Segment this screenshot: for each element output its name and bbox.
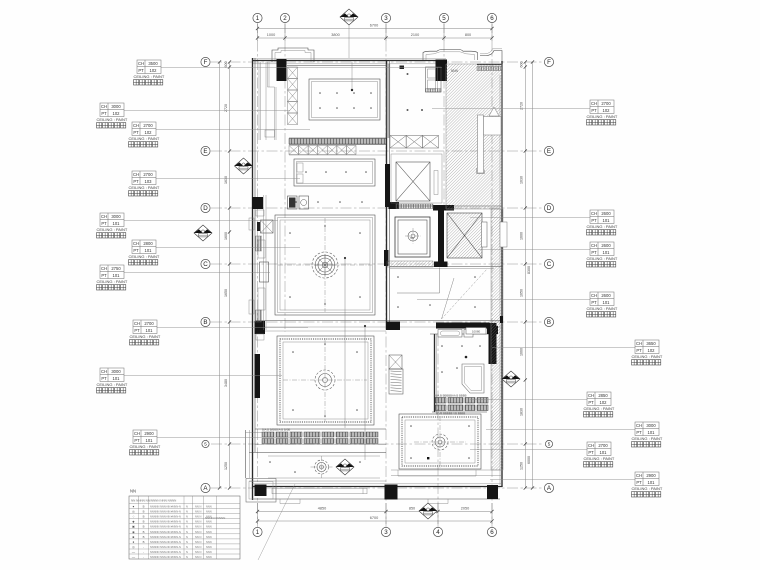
partition wall y452 corridor [249, 452, 386, 454]
grid bubble C right [544, 259, 553, 268]
xbox row below kitchen [289, 146, 356, 155]
svg-text:CH: CH [636, 423, 642, 428]
svg-text:101: 101 [113, 221, 121, 226]
svg-text:CEILING : PAINT: CEILING : PAINT [97, 279, 128, 284]
svg-text:1000: 1000 [267, 33, 275, 37]
strip white slot [500, 222, 507, 247]
svg-text:6700: 6700 [370, 24, 378, 28]
svg-text:3480: 3480 [224, 379, 228, 387]
svg-text:2700: 2700 [144, 321, 154, 326]
grid line B [211, 321, 544, 323]
svg-text:600: 600 [224, 62, 228, 68]
left wall hatched bits [256, 236, 262, 251]
fancoil xbox right [389, 355, 402, 369]
svg-text:C: C [203, 261, 208, 268]
grid bubble 3 top [381, 13, 390, 22]
svg-text:2700: 2700 [601, 101, 611, 106]
hatch curb bath1 [387, 261, 433, 267]
partition wall y475 band [391, 475, 502, 477]
svg-text:D: D [547, 205, 552, 212]
svg-text:N: N [186, 535, 188, 539]
svg-text:-: - [143, 555, 144, 559]
svg-text:NNNNN NNN-NN #NNN-N: NNNNN NNN-NN #NNN-N [150, 535, 181, 539]
svg-text:CEILING : PAINT: CEILING : PAINT [129, 185, 160, 190]
elevation marker corridor [336, 459, 354, 475]
svg-text:NN N: NN N [195, 525, 201, 529]
svg-text:PT: PT [101, 111, 107, 116]
ceiling tag right 7 CH3000 [486, 422, 663, 447]
svg-text:CEILING : PAINT: CEILING : PAINT [632, 486, 663, 491]
door hinge blob top [400, 66, 405, 70]
svg-text:2700: 2700 [143, 123, 153, 128]
ceiling tag right 8 CH2700 [470, 442, 615, 467]
ceiling step lines room K [397, 268, 440, 294]
room G xbox row [390, 136, 439, 149]
partition wall x386 hatch [385, 64, 390, 138]
svg-text:800: 800 [465, 33, 471, 37]
column wall left bedroom [255, 354, 261, 398]
svg-text:NNNNN NNN-NN #NNN-N: NNNNN NNN-NN #NNN-N [150, 505, 181, 509]
svg-text:2050: 2050 [461, 507, 469, 511]
ceiling tag left 10 CH2900 [130, 430, 301, 455]
room bedroom2 downlights [410, 425, 470, 459]
svg-text:NN N: NN N [195, 510, 201, 514]
svg-text:1830: 1830 [520, 408, 524, 416]
svg-text:NNNNN NNN-NN #NNN-N: NNNNN NNN-NN #NNN-N [150, 530, 181, 534]
room living outline [275, 215, 375, 315]
svg-text:101: 101 [146, 438, 154, 443]
room mid-right downlights [397, 276, 476, 308]
svg-text:CEILING : PAINT: CEILING : PAINT [129, 254, 160, 259]
svg-text:101: 101 [603, 218, 611, 223]
svg-text:CH: CH [636, 341, 642, 346]
svg-text:NNNNN NNN-NN #NNN-N: NNNNN NNN-NN #NNN-N [150, 555, 181, 559]
ceiling tag left 3 CH2700 [129, 122, 311, 147]
entry wall bottom-left [245, 430, 247, 478]
svg-text:101: 101 [603, 250, 611, 255]
svg-text:2750: 2750 [111, 266, 121, 271]
svg-text:PT: PT [133, 179, 139, 184]
elevation marker top [340, 9, 358, 25]
grid line 5a [211, 443, 544, 445]
svg-text:NNN: NNN [451, 69, 459, 73]
cabinet xboxes vertical strip [288, 67, 298, 79]
svg-text:NNNNN NNN-NN #NNN-N: NNNNN NNN-NN #NNN-N [150, 510, 181, 514]
elevation marker left-D [194, 225, 212, 241]
bedroom2 black mark [427, 457, 429, 459]
svg-text:CH: CH [101, 214, 107, 219]
bay window moulding top-mid [423, 49, 478, 60]
svg-text:102: 102 [600, 400, 608, 405]
room kitchen outline [309, 79, 380, 120]
svg-text:850: 850 [409, 507, 415, 511]
grid bubble E right [544, 146, 553, 155]
svg-text:1600: 1600 [520, 232, 524, 240]
svg-text:B: B [143, 510, 145, 514]
column grid1-D [252, 197, 263, 209]
svg-text:2800: 2800 [143, 241, 153, 246]
room bedroom1 medallion [283, 338, 367, 422]
partition wall y333 right [430, 333, 489, 335]
svg-text:PT: PT [591, 218, 597, 223]
svg-text:2: 2 [283, 15, 287, 22]
hatch band below kitchen [289, 139, 386, 145]
svg-text:CH: CH [636, 473, 642, 478]
room bath1 outline [395, 217, 430, 257]
column grid2-F [277, 59, 287, 81]
svg-text:CH: CH [133, 123, 139, 128]
svg-text:PT: PT [636, 430, 642, 435]
svg-text:NN N: NN N [195, 520, 201, 524]
vanity hatched band [435, 398, 446, 404]
ceiling tag left 1 CH3500 [134, 60, 443, 85]
svg-text:3000: 3000 [111, 369, 121, 374]
svg-text:NN N: NN N [195, 540, 201, 544]
exterior wall right [501, 61, 503, 487]
svg-text:NN NNNN NN/NNNN: NN NNNN NN/NNNN NNN NNNN [131, 499, 176, 503]
svg-text:4850: 4850 [318, 507, 326, 511]
svg-text:CEILING : PAINT: CEILING : PAINT [97, 227, 128, 232]
void hatched area right [446, 64, 502, 209]
svg-text:PT: PT [101, 273, 107, 278]
svg-text:NNN: NNN [206, 510, 212, 514]
svg-text:▣: ▣ [132, 525, 135, 529]
bath2 shower corner [462, 364, 484, 393]
svg-text:●: ● [133, 505, 135, 509]
svg-text:5: 5 [548, 442, 551, 447]
grid bubble 6 bottom [487, 527, 496, 536]
room bedroom2 medallion [414, 416, 466, 468]
svg-text:1650: 1650 [224, 289, 228, 297]
svg-text:PT: PT [133, 248, 139, 253]
svg-text:CH: CH [133, 172, 139, 177]
svg-text:2600: 2600 [601, 293, 611, 298]
svg-text:N: N [186, 530, 188, 534]
svg-text:NNNNN NNN-NN #NNN-N: NNNNN NNN-NN #NNN-N [150, 545, 181, 549]
bath2 counter boxes [438, 330, 462, 338]
svg-text:CEILING : PAINT: CEILING : PAINT [632, 354, 663, 359]
room top-right downlights [407, 73, 424, 111]
svg-text:CH: CH [101, 104, 107, 109]
svg-text:103: 103 [145, 179, 153, 184]
svg-text:NN N: NN N [195, 535, 201, 539]
column bath2 band [436, 323, 490, 329]
ceiling tag left 5 CH3000 [97, 213, 279, 238]
elevation marker bottom [419, 503, 437, 519]
svg-text:2850: 2850 [598, 393, 608, 398]
svg-text:PT: PT [588, 450, 594, 455]
top dimension 6700 [258, 28, 493, 30]
grid bubble A left [201, 483, 210, 492]
svg-text:3500: 3500 [148, 61, 158, 66]
svg-text:N: N [186, 520, 188, 524]
svg-text:NNN: NNN [206, 540, 212, 544]
grid bubble E left [201, 146, 210, 155]
svg-text:3000: 3000 [111, 214, 121, 219]
top dimension segments [258, 37, 493, 39]
svg-text:CEILING : PAINT: CEILING : PAINT [632, 436, 663, 441]
right inner dim chain [524, 62, 526, 488]
svg-text:3650: 3650 [646, 341, 656, 346]
grid bubble D right [544, 203, 553, 212]
svg-text:B: B [143, 505, 145, 509]
fan coil box left [261, 220, 274, 233]
column grid3-D [389, 202, 400, 209]
svg-text:10080: 10080 [472, 330, 481, 334]
grid line C [211, 263, 544, 265]
svg-text:2600: 2600 [601, 211, 611, 216]
parapet band top-right [477, 63, 502, 65]
elevation marker right [502, 371, 520, 387]
svg-text:B/A B B/BBB/A B B/BB: B/A B B/BBB/A B B/BB [262, 428, 290, 432]
partition wall y430 bedroom bottom [255, 428, 386, 430]
grid bubble A right [544, 483, 553, 492]
elevation marker stem top [348, 25, 350, 58]
svg-text:CH: CH [133, 241, 139, 246]
appliance boxes [288, 196, 298, 209]
wardrobe hatched band [262, 432, 274, 437]
ceiling tag left 9 CH3000 [97, 368, 283, 393]
exterior wall left [252, 58, 254, 500]
svg-text:NNNNN NNN-NN #NNN-N: NNNNN NNN-NN #NNN-N [150, 550, 181, 554]
svg-text:5: 5 [204, 442, 207, 447]
svg-text:CEILING : PAINT: CEILING : PAINT [587, 114, 618, 119]
grid bubble 6 top [487, 13, 496, 22]
grid line E [211, 150, 544, 152]
svg-text:N: N [186, 510, 188, 514]
partition wall y155 [289, 154, 386, 156]
grid line F [211, 61, 544, 63]
partition wall y208 right zone [390, 205, 502, 207]
svg-text:102: 102 [113, 111, 121, 116]
svg-text:B: B [143, 525, 145, 529]
svg-text:N: N [186, 540, 188, 544]
kitchen top wall face [287, 65, 386, 67]
svg-text:101: 101 [146, 328, 154, 333]
fancoil hatch right [389, 369, 403, 394]
svg-text:PT: PT [138, 68, 144, 73]
svg-text:N: N [186, 505, 188, 509]
left wall casing top [258, 62, 260, 140]
partition wall x433 [434, 334, 436, 412]
room dining downlights [305, 171, 367, 173]
svg-text:B VB BBBBB VB BBBB: B VB BBBBB VB BBBB [436, 412, 465, 416]
svg-text:101: 101 [603, 300, 611, 305]
svg-text:B: B [143, 515, 145, 519]
column elevator left [438, 209, 444, 262]
left outer dim chain [219, 62, 221, 488]
room living downlights [289, 201, 363, 305]
svg-text:1630: 1630 [520, 176, 524, 184]
svg-text:6000: 6000 [527, 456, 531, 464]
svg-text:CH: CH [138, 61, 144, 66]
grid bubble 1 top [253, 13, 262, 22]
grid bubble 1 bottom [253, 527, 262, 536]
svg-text:101: 101 [145, 248, 153, 253]
room bedroom1 outline [277, 336, 374, 425]
svg-text:CEILING : PAINT: CEILING : PAINT [97, 117, 128, 122]
svg-text:2900: 2900 [144, 431, 154, 436]
svg-text:PT: PT [134, 328, 140, 333]
partition wall y470 right room [391, 469, 502, 471]
svg-text:3: 3 [384, 15, 388, 22]
svg-text:CH: CH [591, 211, 597, 216]
svg-text:B: B [143, 520, 145, 524]
svg-text:6700: 6700 [370, 516, 378, 520]
svg-text:1660: 1660 [520, 348, 524, 356]
svg-text:102: 102 [150, 68, 158, 73]
void white slot [478, 115, 484, 173]
ceiling tag right 5 CH3650 [492, 340, 663, 365]
left wall casing [263, 195, 265, 330]
svg-text:6: 6 [490, 529, 494, 536]
svg-text:-: - [143, 545, 144, 549]
svg-text:1600: 1600 [224, 232, 228, 240]
dining stove boxes [297, 163, 303, 172]
svg-text:2700: 2700 [143, 172, 153, 177]
svg-text:◎: ◎ [132, 510, 135, 514]
svg-text:PT: PT [588, 400, 594, 405]
svg-text:PT: PT [134, 438, 140, 443]
svg-text:1630: 1630 [224, 176, 228, 184]
svg-text:CEILING : PAINT: CEILING : PAINT [134, 74, 165, 79]
partition wall y320 [255, 320, 502, 322]
strip black bit [500, 316, 503, 323]
column grid3-B [386, 322, 400, 331]
bath2 dot [465, 356, 468, 359]
svg-text:◎: ◎ [132, 545, 135, 549]
svg-text:CEILING : PAINT: CEILING : PAINT [130, 444, 161, 449]
column grid3-A [385, 485, 398, 500]
svg-text:3000: 3000 [111, 104, 121, 109]
ceiling tag right 1 CH2700 [432, 100, 618, 125]
grid line D [211, 207, 544, 209]
svg-text:CH: CH [588, 443, 594, 448]
svg-text:NNN: NNN [206, 535, 212, 539]
svg-text:E: E [203, 148, 207, 155]
elevator2 shaft [447, 213, 482, 258]
room kitchen downlights [319, 92, 372, 109]
grid bubble 4 bottom [433, 527, 442, 536]
right outer dim chain [532, 62, 534, 488]
ceiling tag right 2 CH2600 [470, 210, 618, 235]
svg-text:101: 101 [648, 430, 656, 435]
svg-text:CH: CH [588, 393, 594, 398]
partition wall y331 bedroom top [255, 330, 386, 332]
svg-text:■: ■ [133, 535, 135, 539]
partition wall y412 right [432, 411, 487, 413]
bay window moulding top-left [272, 48, 314, 62]
svg-text:2900: 2900 [646, 473, 656, 478]
svg-text:CEILING : PAINT: CEILING : PAINT [587, 224, 618, 229]
ceiling tag left 8 CH2700 [130, 320, 309, 345]
svg-text:101: 101 [648, 480, 656, 485]
column c-wall mid [434, 262, 448, 268]
partition wall y481 corridor [249, 480, 386, 482]
svg-text:3000: 3000 [646, 423, 656, 428]
grid bubble 5a right [545, 440, 552, 447]
svg-text:102: 102 [145, 130, 153, 135]
svg-text:NNNN NNNNN: NNNN NNNNN [205, 516, 225, 520]
column grid1-A [255, 485, 267, 497]
svg-text:PT: PT [133, 130, 139, 135]
svg-text:D: D [203, 205, 208, 212]
grid line 2 [284, 22, 286, 332]
svg-text:NN N: NN N [195, 530, 201, 534]
grid line 1 [257, 22, 259, 527]
svg-text:CH: CH [101, 266, 107, 271]
svg-text:NN: NN [410, 236, 414, 240]
grid bubble B left [201, 317, 210, 326]
svg-text:1250: 1250 [520, 462, 524, 470]
svg-text:2100: 2100 [411, 33, 419, 37]
svg-text:CEILING : PAINT: CEILING : PAINT [97, 382, 128, 387]
svg-text:PT: PT [591, 250, 597, 255]
svg-text:B: B [143, 535, 145, 539]
corner moulding top-right [480, 51, 502, 62]
svg-text:PT: PT [591, 300, 597, 305]
room living medallion [278, 218, 372, 312]
svg-text:1: 1 [256, 15, 260, 22]
elevator1 shaft [391, 154, 442, 203]
room kitchen leader dot [351, 89, 353, 91]
bottom moulding band [272, 488, 367, 494]
svg-text:3: 3 [384, 529, 388, 536]
svg-text:CEILING : PAINT: CEILING : PAINT [587, 306, 618, 311]
svg-text:NN: NN [130, 489, 136, 494]
svg-text:CH: CH [134, 321, 140, 326]
svg-text:2720: 2720 [224, 104, 228, 112]
grid bubble C left [201, 259, 210, 268]
column right bath edge [489, 323, 497, 364]
svg-text:101: 101 [113, 273, 121, 278]
svg-text:PT: PT [591, 108, 597, 113]
svg-text:NNN: NNN [206, 530, 212, 534]
svg-text:NN N: NN N [195, 505, 201, 509]
svg-text:CEILING : PAINT: CEILING : PAINT [587, 256, 618, 261]
svg-text:600: 600 [520, 62, 524, 68]
ceiling tag left 4 CH2700 [129, 171, 301, 196]
svg-text:NNNNN NNN-NN #NNN-N: NNNNN NNN-NN #NNN-N [150, 520, 181, 524]
svg-text:F: F [204, 59, 208, 66]
door swing line [442, 278, 455, 319]
bottom dimension segments [258, 511, 493, 513]
svg-text:B: B [203, 319, 207, 326]
ceiling tag right 6 CH2850 [470, 392, 615, 417]
elevator1 sill band [396, 204, 433, 209]
svg-text:NNN: NNN [206, 505, 212, 509]
room bedroom1 downlights [292, 343, 358, 417]
svg-text:1650: 1650 [520, 289, 524, 297]
grid line 4 [437, 335, 439, 527]
svg-text:NN N: NN N [195, 550, 201, 554]
room dining outline [294, 159, 375, 186]
svg-text:N: N [186, 515, 188, 519]
svg-text:102: 102 [648, 348, 656, 353]
ceiling tag right 3 CH2600 [478, 242, 618, 267]
svg-text:5: 5 [442, 15, 446, 22]
svg-text:PT: PT [101, 376, 107, 381]
svg-text:6: 6 [490, 15, 494, 22]
svg-text:NNNNN NNN-NN #NNN-N: NNNNN NNN-NN #NNN-N [150, 540, 181, 544]
svg-text:-: - [143, 550, 144, 554]
svg-text:CH: CH [134, 431, 140, 436]
ceiling tag left 6 CH2800 [129, 240, 301, 265]
svg-text:NNNNN NNN-NN #NNN-N: NNNNN NNN-NN #NNN-N [150, 525, 181, 529]
grid line 5 [443, 22, 445, 210]
left inner dim chain [229, 62, 231, 488]
svg-text:F: F [547, 59, 551, 66]
